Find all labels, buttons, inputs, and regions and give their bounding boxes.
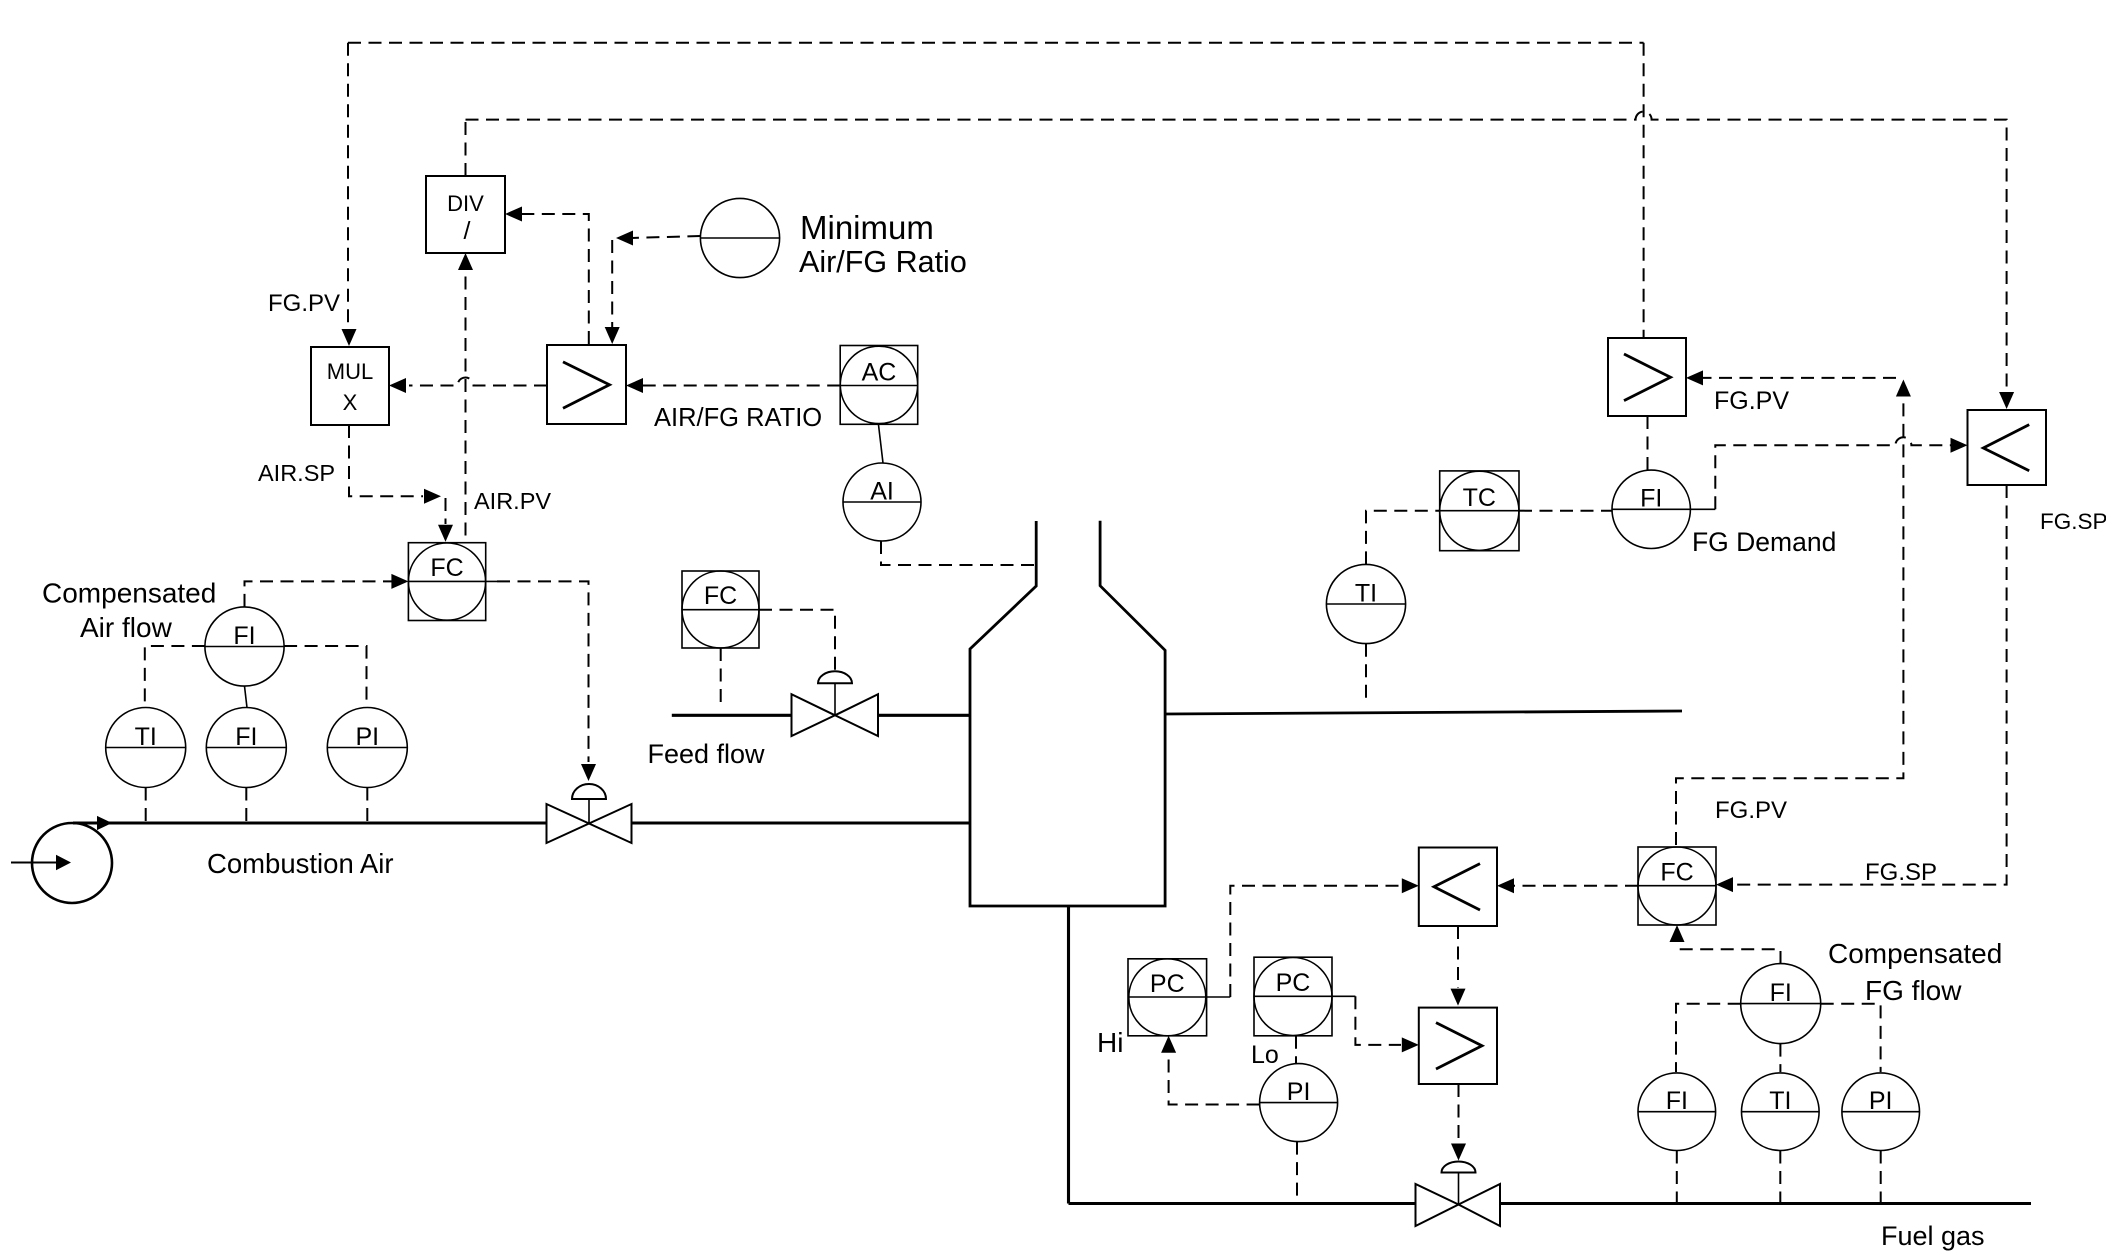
- high select > (fuel valve, min-fire override): [1419, 1008, 1497, 1084]
- arrow up at FG.PV corner: [1896, 380, 1911, 397]
- wire air high-select output up into DIV right input: [508, 214, 589, 344]
- svg-text:Minimum: Minimum: [800, 209, 934, 246]
- svg-text:FC: FC: [704, 582, 737, 610]
- svg-text:FG.SP: FG.SP: [1865, 859, 1937, 886]
- fuel gas pipe: [1069, 1202, 2032, 1205]
- wire TI to TC: [1366, 511, 1440, 565]
- svg-text:AIR/FG RATIO: AIR/FG RATIO: [654, 404, 822, 432]
- svg-text:Fuel gas: Fuel gas: [1881, 1221, 1985, 1251]
- svg-text:FG.SP: FG.SP: [2040, 509, 2106, 534]
- wire fuel high-select output to fuel valve: [1458, 1084, 1460, 1142]
- wire compensated FI right branch to PI: [284, 646, 366, 706]
- wire fuel FC output to fuel low select: [1507, 885, 1638, 887]
- instrument TI (flue gas temperature): [1326, 564, 1405, 643]
- wire FG PI tap: [1880, 1151, 1882, 1204]
- controller FC (combustion air flow controller, squared circle): [408, 543, 497, 621]
- high select > (air demand): [547, 345, 626, 424]
- wire compensated FG FI to TI connector: [1779, 1044, 1781, 1072]
- function block MUL: [311, 347, 389, 425]
- svg-text:Hi: Hi: [1097, 1027, 1123, 1058]
- wire feed FC measurement tap: [720, 648, 722, 707]
- low select < (fuel valve cross-limit): [1419, 848, 1497, 927]
- wire FG.SP from low select to fuel FC: [1736, 485, 2007, 885]
- svg-text:FI: FI: [1666, 1087, 1688, 1115]
- arrow into MUL top: [342, 329, 357, 346]
- svg-text:TI: TI: [1769, 1087, 1791, 1115]
- svg-text:PI: PI: [1869, 1087, 1893, 1115]
- svg-text:Lo: Lo: [1251, 1041, 1279, 1069]
- controller PC Hi (fuel pressure high override, squared circle): [1128, 959, 1207, 1036]
- svg-text:TC: TC: [1463, 484, 1496, 512]
- arrow into high-select right side: [626, 378, 643, 393]
- svg-text:PC: PC: [1150, 970, 1185, 998]
- wire FG TI tap: [1779, 1151, 1781, 1204]
- arrow into low-select left side: [1951, 438, 1968, 453]
- arrow into air FC left side: [391, 574, 408, 589]
- arrow into low-select top: [1999, 392, 2014, 409]
- svg-text:/: /: [464, 217, 471, 245]
- wire FG demand to fuel-demand low select (with hop): [1715, 437, 1951, 509]
- wire DIV output to fuel-demand low select (second dashed run): [466, 112, 2007, 402]
- wire top run down to FG-demand high select: [1643, 43, 1645, 337]
- instrument FI (compensated air flow): [205, 607, 284, 686]
- wire fuel low select down to high select: [1457, 926, 1459, 988]
- arrow into DIV right side: [505, 207, 522, 222]
- controller FC (fuel gas flow controller, squared circle): [1638, 847, 1716, 925]
- svg-text:Feed flow: Feed flow: [648, 739, 766, 769]
- instrument PI (air pressure): [327, 708, 407, 788]
- wire PI tap to fuel pipe: [1296, 1142, 1298, 1204]
- svg-text:DIV: DIV: [447, 191, 484, 216]
- wire FG.PV from fuel select to MUL (top long dashed run): [348, 43, 1644, 329]
- wire compensated FG flow FI to fuel FC: [1677, 945, 1781, 964]
- wire FG-demand select output down to FI: [1647, 416, 1649, 470]
- wire Lo PC override into fuel high-select left input: [1332, 996, 1401, 1045]
- instrument AC (analyzer controller, squared circle): [840, 346, 918, 425]
- wire compensated FG FI right branch to PI: [1821, 1004, 1881, 1072]
- instrument circle Minimum Air/FG Ratio setpoint: [700, 198, 779, 277]
- svg-text:FC: FC: [430, 554, 463, 582]
- controller PC Lo (fuel pressure low override, squared circle): [1254, 957, 1332, 1036]
- wire PI tap to air pipe: [366, 788, 368, 824]
- wire compensated FI to raw FI connector: [245, 686, 248, 708]
- label Compensated FG flow: [1828, 938, 2002, 1006]
- wire FI tap to air pipe: [245, 788, 247, 824]
- svg-text:Compensated: Compensated: [42, 578, 216, 609]
- wire compensated air flow FI to air FC input: [245, 581, 406, 607]
- wire FG.PV riser from fuel FC: [1676, 398, 1903, 845]
- svg-text:TI: TI: [1355, 580, 1377, 608]
- controller TC (temperature controller, squared circle): [1440, 471, 1519, 551]
- furnace vessel with stack: [970, 521, 1165, 906]
- svg-text:PC: PC: [1276, 969, 1311, 997]
- combustion air pipe: [73, 821, 970, 824]
- arrow into DIV bottom: [458, 253, 473, 270]
- svg-text:PI: PI: [355, 723, 379, 751]
- wire air high-select output to MUL right input (with hop over AIR.PV): [409, 378, 547, 386]
- wire FG FI tap: [1676, 1151, 1678, 1204]
- high select > (FG demand / FG.PV): [1608, 338, 1686, 416]
- arrow into air high-select top: [605, 327, 620, 344]
- arrow into Hi PC bottom: [1161, 1036, 1176, 1053]
- furnace outlet line to convection section: [1165, 711, 1682, 714]
- arrow into fuel high-select left side: [1402, 1037, 1419, 1052]
- function block DIV: [426, 176, 505, 253]
- instrument AI (oxygen analyzer): [843, 463, 921, 541]
- label Minimum Air/FG Ratio: [799, 209, 967, 279]
- svg-text:FG.PV: FG.PV: [1714, 387, 1789, 415]
- instrument TI (FG temperature): [1742, 1073, 1820, 1151]
- svg-text:X: X: [343, 390, 358, 415]
- instrument FI (compensated FG flow): [1741, 964, 1821, 1044]
- arrow on air pipe: [97, 816, 112, 830]
- svg-text:AIR.SP: AIR.SP: [258, 460, 335, 486]
- svg-text:FG.PV: FG.PV: [1715, 797, 1787, 824]
- instrument FI (raw FG flow): [1638, 1073, 1716, 1151]
- instrument PI (fuel gas pressure): [1260, 1064, 1338, 1142]
- wire FG.PV into FG-demand select right input: [1689, 377, 1896, 379]
- feed pipe: [672, 714, 970, 717]
- svg-text:AC: AC: [862, 359, 897, 387]
- svg-text:PI: PI: [1287, 1078, 1311, 1106]
- svg-text:Air/FG Ratio: Air/FG Ratio: [799, 245, 967, 279]
- svg-text:Air flow: Air flow: [80, 612, 173, 643]
- wire AIR.PV from air FC up into DIV bottom: [465, 256, 467, 543]
- svg-text:FI: FI: [1770, 979, 1792, 1007]
- svg-text:TI: TI: [135, 723, 157, 751]
- svg-text:FI: FI: [1640, 485, 1662, 513]
- arrow into fuel FC bottom: [1670, 925, 1685, 942]
- fuel riser into furnace: [1067, 906, 1070, 1204]
- svg-text:FI: FI: [233, 622, 255, 650]
- controller FC (feed flow, squared circle): [682, 571, 759, 648]
- wire AC to AI connector: [879, 425, 884, 463]
- wire minimum ratio into air high select: [612, 236, 700, 327]
- wire PI to Hi PC input: [1169, 1055, 1260, 1105]
- control valve (fuel gas): [1416, 1162, 1501, 1227]
- svg-text:FG Demand: FG Demand: [1692, 527, 1836, 557]
- instrument PI (FG pressure): [1842, 1073, 1920, 1151]
- wire Lo PC to PI connector: [1295, 1036, 1297, 1064]
- low select < (fuel demand): [1968, 410, 2047, 485]
- wire AC output into air high-select right input: [629, 385, 840, 387]
- instrument TI (air temperature): [106, 708, 186, 788]
- arrow into select right side: [1686, 370, 1703, 385]
- svg-text:Compensated: Compensated: [1828, 938, 2002, 969]
- control valve (feed): [792, 671, 879, 736]
- fan / blower (combustion air): [11, 823, 112, 903]
- svg-text:FI: FI: [235, 723, 257, 751]
- arrow into corner from minimum ratio circle: [616, 231, 633, 246]
- arrow into fuel valve actuator: [1451, 1144, 1466, 1161]
- wire TC output to FG demand FI: [1519, 510, 1612, 512]
- svg-text:FG.PV: FG.PV: [268, 290, 340, 317]
- wire TI tap to air pipe: [145, 788, 147, 824]
- arrow into air valve actuator: [581, 764, 596, 781]
- arrow AIR.SP corner: [424, 489, 441, 504]
- instrument FI (raw air flow): [206, 708, 286, 788]
- wire MUL output AIR.SP to air FC setpoint: [349, 425, 446, 524]
- arrow into MUL right side: [389, 378, 406, 393]
- arrow into fuel low-select left side: [1402, 878, 1419, 893]
- label Compensated Air flow: [42, 578, 216, 644]
- arrow into fuel FC right side: [1716, 877, 1733, 892]
- arrow into air FC top: [438, 525, 453, 542]
- wire TI tap to furnace outlet: [1365, 644, 1367, 701]
- wire compensated FG FI left branch to FI: [1676, 1004, 1741, 1072]
- wire Hi PC override into fuel low-select left input: [1207, 886, 1401, 997]
- svg-text:AIR.PV: AIR.PV: [474, 488, 551, 514]
- instrument FI (FG demand): [1612, 470, 1715, 548]
- arrow into fuel low-select right side: [1497, 878, 1514, 893]
- arrow into fuel high-select top: [1451, 989, 1466, 1006]
- svg-text:FC: FC: [1660, 859, 1693, 887]
- control valve (combustion air): [547, 784, 632, 843]
- svg-text:FG flow: FG flow: [1865, 975, 1962, 1006]
- wire feed FC output to feed valve: [759, 610, 835, 671]
- svg-text:MUL: MUL: [327, 359, 373, 384]
- wire air FC output to air control valve: [497, 581, 589, 762]
- wire AI sample line to furnace stack: [881, 541, 1036, 565]
- svg-text:AI: AI: [870, 478, 894, 506]
- svg-text:Combustion Air: Combustion Air: [207, 848, 393, 879]
- wire compensated FI left branch to TI: [145, 646, 205, 706]
